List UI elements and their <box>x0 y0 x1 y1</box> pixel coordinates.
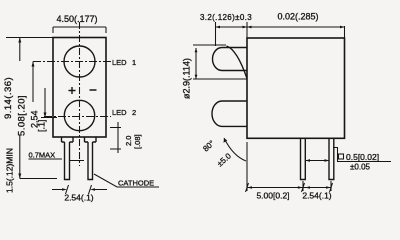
LED 1 dome base arc <box>227 46 248 79</box>
svg-text:1: 1 <box>132 58 136 67</box>
cathode polarity mark - <box>90 89 97 91</box>
viewing angle arc 80° <box>224 138 246 161</box>
overall height dimension line <box>19 38 21 179</box>
svg-text:0.5[0.02]: 0.5[0.02] <box>346 152 379 162</box>
extension line housing top left <box>6 37 56 39</box>
svg-text:4.50(.177): 4.50(.177) <box>56 14 97 24</box>
side lead 1 <box>301 138 306 179</box>
svg-text:CATHODE: CATHODE <box>118 179 154 188</box>
svg-text:5.00[0.2]: 5.00[0.2] <box>256 191 289 201</box>
lead pitch dimension 2.54(.1) <box>52 185 107 194</box>
LED2 horizontal centerline <box>44 116 111 118</box>
vertical centerline <box>79 22 81 166</box>
inner lead pitch dimension line <box>306 160 330 162</box>
svg-text:2: 2 <box>132 108 136 117</box>
bottom dimensions 5.00[0.2] 2.54(.1) <box>247 142 331 191</box>
svg-text:2.54(.1): 2.54(.1) <box>302 191 331 201</box>
LED 2 lens circle <box>64 100 94 130</box>
LED spacing dimension line 5.08 <box>32 62 34 103</box>
svg-text:5.08[.20]: 5.08[.20] <box>17 95 28 136</box>
LED housing front view outline <box>53 38 106 138</box>
svg-text:1.5(.12)MIN: 1.5(.12)MIN <box>5 148 15 193</box>
lead 1 standoff <box>62 137 74 142</box>
lead 2 pin <box>88 142 93 180</box>
side bracket dimension 2.0 <box>110 122 121 153</box>
svg-text:3.2(.126)±0.3: 3.2(.126)±0.3 <box>200 13 252 22</box>
svg-text:LED: LED <box>112 108 127 117</box>
svg-text:0.7MAX: 0.7MAX <box>29 151 56 160</box>
lead 2 standoff <box>85 137 97 142</box>
svg-text:LED: LED <box>112 58 127 67</box>
dimension line 2.54 <box>41 88 57 118</box>
svg-text:[.1]: [.1] <box>37 119 47 132</box>
CATHODE label <box>94 174 159 187</box>
LED 2 dome side profile <box>212 101 247 126</box>
svg-text:ø2.9(.114): ø2.9(.114) <box>182 58 192 99</box>
svg-text:9.14(.36): 9.14(.36) <box>3 77 14 119</box>
LED 1 dome side profile <box>213 48 248 71</box>
lead 1 pin <box>65 142 70 180</box>
svg-text:2.0: 2.0 <box>124 136 133 146</box>
svg-text:0.02(.285): 0.02(.285) <box>277 12 318 22</box>
LED1 horizontal centerline <box>33 61 111 63</box>
housing side view outline <box>247 38 345 138</box>
extension line lead tips left <box>20 178 57 180</box>
svg-text:2.54(.1): 2.54(.1) <box>64 193 93 203</box>
dome diameter dimension ø2.9(.114) <box>193 45 247 79</box>
square lead callout 0.5[0.02] <box>333 148 391 162</box>
side lead 2 <box>329 138 334 179</box>
anode polarity mark + <box>69 87 76 94</box>
svg-text:±0.05: ±0.05 <box>350 163 371 172</box>
LED 1 lens circle <box>64 46 95 77</box>
svg-text:[.08]: [.08] <box>133 134 142 149</box>
